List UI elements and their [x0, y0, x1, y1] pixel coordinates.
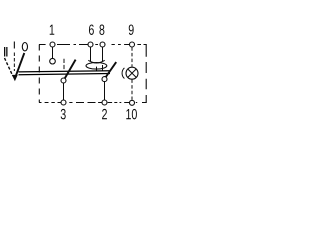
wire terminal 6 down to bulb [90, 47, 92, 61]
terminal 8 [100, 42, 105, 47]
switch housing top edge (dash-dot) [39, 44, 147, 46]
pole 1 moving lever [64, 60, 76, 81]
position label II stroke 2 [6, 47, 7, 57]
position label 0 (drawn oval) [22, 43, 27, 51]
position pointer from I (dashed) [13, 53, 15, 72]
terminal 3 [61, 100, 66, 105]
position pointer from 0 (solid, current) [16, 53, 25, 77]
label terminal 6 [89, 25, 94, 35]
position label II stroke 1 [4, 47, 5, 57]
indicator lamp body [126, 67, 138, 79]
illumination bulb envelope (ellipse) [86, 63, 107, 70]
wire terminal 8 down to bulb [102, 47, 104, 61]
switch housing left edge (dashed) [38, 45, 40, 103]
position pointer from II (dashed) [5, 58, 13, 76]
label terminal 1 [50, 25, 55, 35]
terminal 10 [130, 100, 135, 105]
bulb contact stub center [96, 67, 98, 71]
pole 2 moving lever [104, 62, 116, 79]
terminal 1 [50, 42, 55, 47]
actuator bar upper line [19, 71, 111, 72]
label terminal 10 [126, 109, 137, 119]
wire terminal 1 down to contact [52, 47, 54, 59]
terminal 2 [102, 100, 107, 105]
illumination bulb filament arc [88, 60, 104, 63]
contact point: pole 1 fixed (terminal 1 side) [50, 58, 56, 64]
contact point: pole 2 moving (terminal 2 side) [102, 77, 107, 82]
pole 1 alternate position (dashed) [63, 59, 65, 70]
indicator lamp cross stroke 2 [128, 69, 136, 77]
position label I [14, 42, 15, 49]
label terminal 9 [129, 25, 134, 35]
indicator lamp lens arc [122, 68, 124, 79]
indicator lamp to terminal 10 (dashed) [131, 79, 133, 99]
terminal 9 [130, 42, 135, 47]
switch housing bottom edge (dash-dot) [39, 102, 147, 104]
contact point: pole 1 moving (terminal 3 side) [61, 78, 66, 83]
indicator lamp cross stroke 1 [128, 69, 136, 77]
actuator bar lower line [19, 74, 111, 75]
switch housing right edge (dashed) [145, 45, 147, 103]
wire terminal 2 up to moving contact [104, 82, 106, 101]
label terminal 3 [61, 109, 66, 119]
indicator lamp feed from terminal 9 (dashed) [131, 47, 133, 67]
label terminal 8 [99, 25, 104, 35]
terminal 6 [88, 42, 93, 47]
position pointer arrowhead [12, 75, 18, 81]
wire terminal 3 up to moving contact [63, 83, 65, 100]
bulb contact stub right [102, 65, 104, 71]
label terminal 2 [102, 109, 107, 119]
